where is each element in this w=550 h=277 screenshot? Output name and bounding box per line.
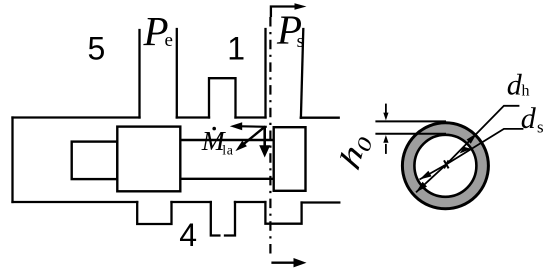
- wire Ps channel left wall: [264, 29, 266, 118]
- wire h0 top tangent line: [375, 120, 446, 122]
- svg-text:d: d: [507, 69, 523, 102]
- wire Pe channel left wall: [138, 30, 140, 118]
- wire bottom U port bottom right segment: [225, 202, 235, 236]
- svg-text:d: d: [521, 102, 537, 135]
- wire Ps channel right wall: [301, 29, 303, 118]
- centerline (dash-dot axis): [269, 17, 271, 254]
- wire sleeve left wall: [11, 118, 13, 203]
- wire bottom U port left wall: [211, 202, 220, 236]
- wire spool stem top: [180, 139, 273, 141]
- ring outer circle: [402, 123, 488, 209]
- label h0 (rotated): [334, 124, 377, 177]
- svg-text:s: s: [537, 117, 544, 136]
- ring center mark: [444, 160, 449, 168]
- svg-text:s: s: [297, 31, 304, 52]
- svg-text:la: la: [222, 144, 233, 159]
- spool left rod: [72, 142, 118, 180]
- svg-text:h: h: [522, 83, 530, 100]
- arrow h0 lower: [383, 135, 388, 154]
- wire spool stem bottom: [180, 178, 273, 180]
- svg-text:4: 4: [179, 217, 197, 253]
- ring inner circle: [414, 135, 476, 197]
- wire sleeve bottom wall segment: [235, 201, 265, 203]
- arrow leakage down: [259, 127, 270, 158]
- wire sleeve top wall mid segment: [177, 116, 209, 118]
- wire sleeve top wall segment: [236, 116, 266, 118]
- wire Pe channel right wall: [176, 29, 178, 118]
- spool left land: [117, 127, 180, 192]
- svg-text:5: 5: [88, 31, 106, 67]
- arrow bottom (flow direction): [271, 258, 306, 267]
- arrow leakage diagonal: [235, 126, 265, 151]
- wire top bump: [209, 78, 236, 117]
- dimension line ds: [420, 129, 524, 180]
- wire h0 bottom tangent line: [375, 133, 446, 135]
- wire sleeve bottom wall left segment: [13, 201, 138, 203]
- arrow h0 upper: [383, 104, 388, 121]
- wire sleeve top wall right segment: [301, 117, 339, 119]
- label Mla (leakage mass flow): [212, 127, 216, 131]
- arrow leakage left: [230, 122, 267, 130]
- wire sleeve bottom wall right segment: [302, 201, 340, 203]
- wire sleeve bottom wall mid segment: [172, 201, 211, 203]
- wire bottom center notch: [137, 202, 171, 224]
- arrow top (flow direction at Ps): [271, 3, 307, 17]
- spool right land: [274, 127, 306, 191]
- wire bottom right notch: [265, 202, 301, 224]
- dimension line dh: [416, 106, 519, 193]
- svg-text:1: 1: [227, 31, 245, 67]
- wire sleeve top wall left segment: [13, 116, 140, 118]
- svg-text:e: e: [165, 30, 173, 51]
